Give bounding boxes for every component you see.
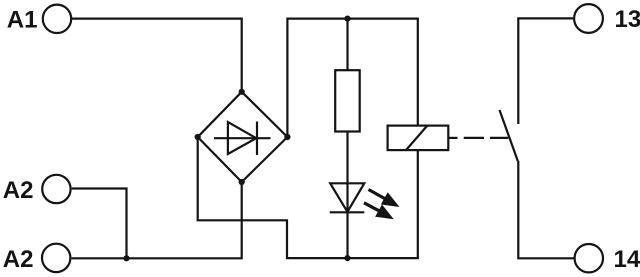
terminal A2 (top) <box>42 175 70 203</box>
LED arrow upper <box>369 190 400 208</box>
wire A2 top to junction <box>72 189 127 259</box>
junction bridge right <box>284 134 290 140</box>
junction A2 rail <box>123 255 129 261</box>
junction bridge bottom <box>239 179 245 185</box>
junction bridge top <box>239 89 245 95</box>
svg-text:A2: A2 <box>3 177 34 204</box>
wire resistor branch top <box>346 19 348 71</box>
terminal A2 (bottom) <box>42 244 70 272</box>
relay coil <box>388 126 449 151</box>
terminal A1 <box>43 5 71 33</box>
wire resistor to LED <box>346 132 348 213</box>
wire A2 rail to bridge bottom <box>72 182 242 259</box>
junction LED bottom <box>344 255 350 261</box>
svg-text:14: 14 <box>614 246 640 273</box>
svg-text:A2: A2 <box>3 246 34 273</box>
wire switch to terminal 14 <box>518 161 574 259</box>
LED <box>330 183 365 212</box>
bridge rectifier <box>198 92 288 182</box>
dashed actuator link <box>448 137 508 139</box>
wire LED to bottom rail <box>346 212 348 258</box>
junction resistor top <box>344 16 350 22</box>
wire A1 to bridge top <box>72 19 242 92</box>
resistor <box>335 70 360 131</box>
LED arrow lower <box>364 203 394 219</box>
svg-text:A1: A1 <box>7 6 38 33</box>
switch blade <box>500 110 518 161</box>
wire terminal 13 to fixed contact <box>518 18 573 124</box>
wire bridge right / top rail / coil top <box>287 19 417 137</box>
terminal 14 <box>575 244 603 272</box>
junction bridge left <box>195 134 201 140</box>
terminal 13 <box>574 4 603 33</box>
svg-text:13: 13 <box>615 6 640 33</box>
wire bridge left / bottom rail / coil bottom <box>198 137 418 258</box>
